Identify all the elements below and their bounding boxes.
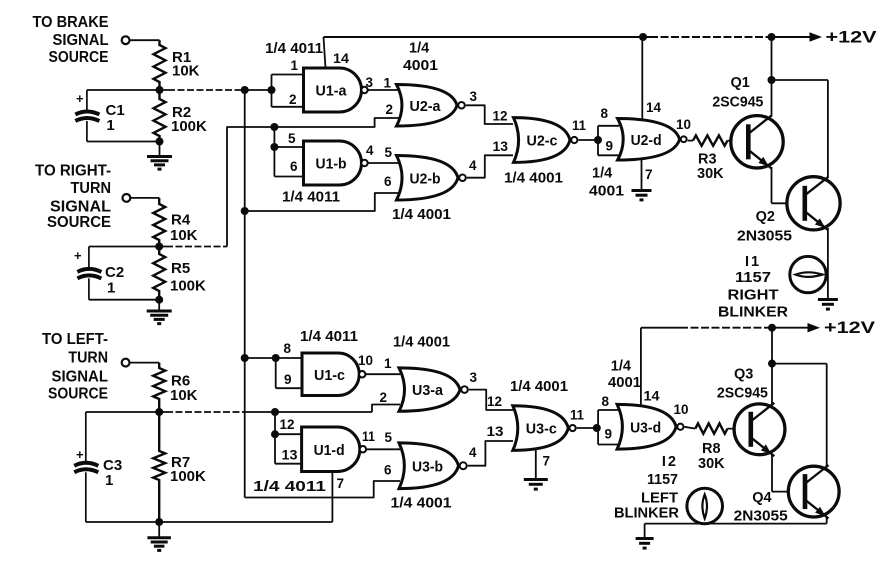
svg-text:1/4 4011: 1/4 4011: [300, 329, 358, 345]
resistor R4 10K: [153, 198, 165, 247]
svg-text:12: 12: [280, 417, 295, 432]
wire brake bus vertical: [244, 90, 246, 498]
junction brake bus / U2-b pin6 wire: [241, 207, 249, 215]
node right-turn junction R4/R5: [155, 243, 163, 251]
svg-text:8: 8: [284, 341, 292, 356]
wire U1-d loop feed: [274, 412, 276, 434]
wire U3-d out to R8: [685, 427, 696, 429]
resistor R8 30K: [695, 423, 727, 433]
nor gate U2-d (1/4 4001): [618, 119, 687, 161]
wire U1-d pin 7 to ground rail: [331, 470, 333, 522]
svg-text:9: 9: [284, 372, 292, 387]
svg-text:BLINKER: BLINKER: [718, 305, 789, 321]
wire to U1-c inputs: [245, 357, 276, 359]
svg-text:1: 1: [107, 280, 115, 297]
nand gate U1-c (1/4 4011): [302, 353, 365, 396]
svg-text:LEFT: LEFT: [641, 491, 678, 507]
svg-text:10K: 10K: [170, 387, 198, 404]
svg-text:2: 2: [289, 92, 297, 107]
svg-text:2: 2: [386, 102, 394, 117]
svg-text:7: 7: [543, 454, 551, 469]
wire right-turn to U2-a pin 2: [227, 118, 399, 247]
svg-text:14: 14: [333, 51, 350, 66]
svg-text:SOURCE: SOURCE: [48, 386, 108, 403]
svg-text:2N3055: 2N3055: [737, 229, 792, 245]
svg-text:R5: R5: [171, 260, 190, 277]
junction brake bus / U1-c feed: [241, 354, 249, 362]
junction Q3 collector node: [768, 360, 776, 368]
svg-text:3: 3: [366, 75, 374, 90]
svg-text:13: 13: [282, 448, 299, 463]
junction U1-c loop: [272, 354, 280, 362]
svg-text:100K: 100K: [171, 118, 207, 135]
svg-text:11: 11: [572, 118, 586, 133]
svg-text:10: 10: [358, 353, 373, 368]
wire U2-a out to U2-c pin 12: [466, 105, 513, 124]
arrow +12V bottom: [808, 323, 821, 332]
wire Q3 emitter to Q4 base: [771, 455, 773, 492]
lamp I1 1157 right blinker: [790, 256, 826, 292]
svg-text:I2: I2: [662, 454, 678, 470]
junction rail / Q1 collector: [768, 33, 776, 41]
wire U3-d loop vertical: [597, 410, 599, 445]
wire U1-a loop vertical: [271, 75, 273, 107]
svg-text:3: 3: [470, 89, 478, 104]
svg-text:U1-a: U1-a: [316, 83, 348, 100]
wire U1-a pin 14 to +12V: [324, 37, 326, 68]
svg-text:TO RIGHT-: TO RIGHT-: [35, 162, 111, 179]
svg-text:9: 9: [606, 139, 614, 154]
svg-text:10K: 10K: [170, 227, 198, 244]
svg-text:SOURCE: SOURCE: [49, 49, 109, 66]
svg-text:14: 14: [644, 388, 661, 403]
svg-text:8: 8: [601, 106, 609, 121]
wire Q3 node to Q4 collector drop: [772, 363, 827, 365]
wire Q1 node to Q2 collector drop: [772, 79, 828, 81]
svg-text:U2-b: U2-b: [410, 170, 441, 187]
svg-text:SIGNAL: SIGNAL: [53, 32, 109, 49]
wire stub to ground I2: [644, 524, 646, 538]
wire U2-c out to U2-d input: [578, 139, 598, 141]
wire +12V rail bottom: [641, 327, 680, 329]
svg-text:U1-b: U1-b: [316, 156, 347, 173]
resistor R7 100K: [153, 412, 165, 522]
svg-text:8: 8: [602, 394, 610, 409]
svg-text:13: 13: [493, 139, 509, 154]
nor gate U3-d (1/4 4001): [617, 404, 683, 449]
svg-text:100K: 100K: [170, 468, 206, 485]
svg-text:U1-d: U1-d: [314, 442, 345, 459]
ground below R7: [147, 538, 171, 551]
svg-text:7: 7: [645, 167, 653, 182]
arrow +12V top: [810, 32, 823, 41]
svg-text:1: 1: [105, 472, 113, 489]
svg-text:+12V: +12V: [826, 28, 878, 47]
nor gate U2-c (1/4 4001): [514, 118, 578, 163]
svg-text:30K: 30K: [697, 166, 724, 182]
svg-text:3: 3: [470, 370, 478, 385]
wire Q3 collector: [771, 364, 773, 405]
svg-text:U3-c: U3-c: [526, 421, 557, 438]
wire +12V rail bottom right: [770, 327, 810, 329]
wire U1-d loop vertical: [274, 434, 276, 464]
svg-text:U3-b: U3-b: [412, 458, 443, 475]
svg-text:TO BRAKE: TO BRAKE: [33, 14, 109, 31]
junction R2/C1 bottom: [156, 138, 164, 146]
wire +12V to Q3 node: [771, 328, 773, 364]
svg-text:U1-c: U1-c: [314, 367, 345, 384]
svg-text:4001: 4001: [589, 184, 624, 200]
wire Q2 emitter to lamp/ground: [827, 228, 829, 299]
wire lamp I2 bottom: [645, 523, 827, 525]
wire right-turn input: [131, 197, 160, 199]
wire right-turn node to bus: [166, 246, 227, 248]
resistor R5 100K: [153, 247, 165, 300]
wire to Q4 base: [772, 491, 800, 493]
wire brake node horizontal: [87, 89, 168, 91]
ground below lamp I1: [818, 300, 838, 310]
wire Q4 emitter down: [826, 517, 828, 524]
transistor Q4 2N3055: [788, 466, 839, 517]
wire C2 bottom: [89, 299, 159, 301]
svg-text:1/4 4011: 1/4 4011: [282, 190, 340, 206]
svg-text:+12V: +12V: [824, 318, 876, 337]
svg-text:1/4 4001: 1/4 4001: [392, 207, 451, 223]
wire left-turn node to U3-a pin2: [244, 411, 372, 413]
wire U3-d pin 8: [598, 409, 618, 411]
wire U1-b loop feed: [273, 127, 275, 147]
wire U1-b pin 5: [274, 146, 305, 148]
nand gate U1-d (1/4 4011): [302, 427, 366, 472]
wire U2-d loop vertical: [597, 126, 599, 156]
wire brake bus to U3-b pin 6: [245, 481, 400, 498]
wire brake bus to U2-b pin 6: [245, 193, 399, 211]
svg-text:30K: 30K: [698, 456, 725, 472]
capacitor C1 1uF: [75, 90, 99, 142]
wire down to Q2 collector: [827, 80, 829, 178]
nor gate U3-c (1/4 4001): [513, 406, 576, 451]
transistor Q2 2N3055: [787, 177, 840, 230]
wire U2-d pin 14 to +12V rail: [641, 37, 643, 126]
resistor R3 30K: [693, 135, 728, 145]
wire R3 to Q1 base: [728, 140, 749, 142]
wire U3-a out to U3-c pin 12: [469, 390, 513, 410]
svg-text:5: 5: [385, 430, 393, 445]
wire Q1 collector: [771, 80, 773, 117]
svg-text:5: 5: [385, 145, 393, 160]
wire U1-a pin 1: [272, 74, 306, 76]
wire U1-c loop vertical: [275, 358, 277, 388]
wire +12V rail top: [324, 36, 651, 38]
node left-turn junction R6/R7: [155, 408, 163, 416]
svg-text:6: 6: [290, 159, 298, 174]
wire U1-b pin 6: [274, 176, 305, 178]
junction U3-d input loop: [593, 424, 601, 432]
svg-text:100K: 100K: [170, 278, 206, 295]
terminal brake signal input: [122, 36, 130, 44]
wire U3-d pin 9: [598, 444, 618, 446]
wire left-turn node dashed: [166, 411, 244, 413]
node brake junction R1/R2: [156, 86, 164, 94]
svg-text:4001: 4001: [608, 375, 641, 391]
wire to ground: [158, 300, 160, 311]
svg-text:U3-d: U3-d: [630, 419, 661, 436]
ground below R2: [147, 157, 172, 170]
lamp I2 1157 left blinker: [687, 488, 723, 524]
wire U2-d out to R3: [688, 140, 693, 142]
svg-text:RIGHT: RIGHT: [728, 288, 779, 304]
svg-text:4: 4: [469, 445, 477, 460]
junction U1-b loop: [270, 143, 278, 151]
svg-text:R4: R4: [171, 211, 191, 228]
svg-text:SOURCE: SOURCE: [47, 214, 111, 231]
svg-text:1157: 1157: [735, 270, 771, 286]
junction rail / Q3 collector: [768, 324, 776, 332]
svg-text:1/4 4011: 1/4 4011: [265, 41, 323, 57]
svg-text:7: 7: [337, 476, 345, 491]
wire jog into U3-a pin 2: [372, 405, 400, 413]
resistor R6 10K: [153, 363, 165, 412]
wire to Q2 base: [772, 202, 801, 204]
wire U2-b out to U2-c pin 13: [467, 155, 513, 177]
svg-text:2: 2: [380, 390, 388, 405]
svg-text:1/4: 1/4: [409, 41, 429, 57]
ground U3-c pin 7: [524, 480, 548, 490]
svg-text:4001: 4001: [403, 58, 438, 74]
wire U1-c pin 9: [276, 387, 303, 389]
wire U1-b loop vertical: [273, 147, 275, 177]
junction U2-d input loop: [594, 136, 602, 144]
svg-text:14: 14: [646, 100, 661, 115]
wire down to Q4 collector: [826, 364, 828, 466]
svg-text:1: 1: [384, 356, 392, 371]
wire R8 to Q3 base: [728, 428, 750, 430]
wire U2-d pin 7 to ground: [641, 155, 643, 190]
ground below lamp I2: [636, 539, 654, 549]
svg-text:2N3055: 2N3055: [734, 508, 788, 524]
svg-text:6: 6: [384, 463, 392, 478]
svg-text:I1: I1: [745, 254, 761, 270]
ground U2-d pin 7: [632, 191, 652, 200]
svg-text:9: 9: [605, 427, 613, 442]
svg-text:10: 10: [676, 117, 691, 132]
junction R7/C3 bottom: [155, 518, 163, 526]
wire brake input: [130, 39, 160, 41]
svg-text:+: +: [74, 248, 82, 263]
svg-text:11: 11: [362, 429, 375, 444]
wire U2-d pin 8: [598, 125, 619, 127]
transistor Q1 2SC945: [731, 116, 783, 168]
wire C2 top: [89, 246, 166, 248]
wire U3-d pin 14 to +12V rail: [640, 328, 642, 412]
wire U1-b out to U2-b pin 5: [368, 162, 399, 164]
svg-text:2SC945: 2SC945: [712, 95, 763, 111]
svg-text:5: 5: [288, 131, 296, 146]
capacitor C2 1uF: [74, 247, 101, 300]
wire brake node to U1-a: [240, 89, 272, 91]
nor gate U2-b (1/4 4001): [397, 156, 466, 201]
wire brake node dashed: [168, 89, 240, 91]
wire stub to ground: [158, 522, 160, 538]
svg-text:U2-a: U2-a: [410, 98, 442, 115]
junction U1-a input loop: [268, 86, 276, 94]
wire U3-c pin 7 to ground: [535, 448, 537, 479]
wire +12V rail top right: [770, 36, 812, 38]
transistor Q3 2SC945: [734, 404, 785, 455]
wire Q1 emitter to Q2 base: [771, 167, 773, 203]
wire U1-a pin 2: [272, 106, 306, 108]
junction brake bus top: [241, 86, 249, 94]
nand gate U1-b (1/4 4011): [304, 141, 368, 185]
junction R5/C2 bottom: [155, 296, 163, 304]
wire U1-d pin 13: [275, 463, 303, 465]
svg-text:6: 6: [384, 174, 392, 189]
svg-text:1: 1: [106, 117, 114, 134]
svg-text:1/4: 1/4: [611, 358, 631, 374]
nor gate U3-b (1/4 4001): [399, 443, 467, 489]
svg-text:1/4 4001: 1/4 4001: [504, 171, 563, 187]
svg-text:12: 12: [493, 109, 508, 124]
svg-text:Q2: Q2: [756, 209, 775, 225]
svg-text:1/4 4001: 1/4 4001: [510, 379, 568, 395]
svg-text:13: 13: [487, 424, 505, 439]
svg-text:10K: 10K: [172, 63, 200, 80]
svg-text:U2-d: U2-d: [631, 132, 662, 149]
wire U1-a out to U2-a pin 1: [368, 89, 399, 91]
svg-text:TURN: TURN: [68, 350, 108, 367]
svg-text:1: 1: [384, 76, 392, 91]
wire U2-d pin 9: [598, 154, 619, 156]
terminal left-turn signal input: [122, 359, 130, 367]
junction U1-d loop: [271, 430, 279, 438]
junction U1-d feed: [271, 408, 279, 416]
svg-text:1/4 4001: 1/4 4001: [393, 334, 450, 350]
junction Q1 collector node: [768, 76, 776, 84]
svg-text:BLINKER: BLINKER: [614, 506, 680, 522]
wire U1-d pin 12: [275, 433, 303, 435]
nor gate U3-a (1/4 4001): [399, 368, 468, 411]
svg-text:12: 12: [487, 394, 502, 409]
resistor R2 100K: [154, 90, 166, 142]
wire U1-c out to U3-a pin 1: [365, 373, 400, 375]
wire U3-b out to U3-c pin 13: [468, 441, 513, 466]
wire U3-c out to U3-d input: [577, 427, 597, 429]
wire U1-c pin 8: [276, 357, 303, 359]
junction rail / U2-d pin14: [639, 33, 647, 41]
svg-text:1: 1: [291, 58, 299, 73]
svg-text:TO LEFT-: TO LEFT-: [42, 331, 108, 348]
wire ground rail bottom-left: [86, 521, 333, 523]
svg-text:1157: 1157: [647, 472, 678, 488]
nand gate U1-a (1/4 4011): [304, 68, 368, 112]
wire U1-d out to U3-b pin 5: [366, 448, 400, 450]
svg-text:Q4: Q4: [752, 490, 771, 506]
resistor R1 10K: [154, 40, 166, 90]
svg-text:11: 11: [570, 408, 584, 423]
svg-text:U2-c: U2-c: [527, 133, 558, 150]
wire to ground: [159, 142, 161, 157]
svg-text:TURN: TURN: [71, 180, 112, 197]
svg-text:1/4 4011: 1/4 4011: [253, 479, 326, 495]
wire +12V to Q1 collector node: [771, 37, 773, 80]
junction U1-b feed: [270, 123, 278, 131]
svg-text:Q3: Q3: [734, 367, 753, 383]
terminal right-turn signal input: [123, 194, 131, 202]
wire +12V rail bottom dashed: [680, 327, 770, 329]
svg-text:U3-a: U3-a: [412, 382, 444, 399]
wire +12V rail top dashed: [650, 36, 770, 38]
nor gate U2-a (1/4 4001): [397, 85, 465, 127]
ground below R5: [147, 311, 172, 324]
svg-text:1/4: 1/4: [592, 166, 612, 182]
svg-text:4: 4: [469, 158, 477, 173]
svg-text:+: +: [76, 91, 84, 106]
svg-text:R8: R8: [702, 441, 721, 457]
svg-text:10: 10: [674, 402, 689, 417]
svg-text:2SC945: 2SC945: [717, 385, 768, 401]
capacitor C3 1uF: [74, 412, 98, 522]
svg-text:+: +: [76, 447, 84, 462]
svg-text:C2: C2: [105, 264, 124, 281]
svg-text:1/4 4001: 1/4 4001: [391, 496, 452, 512]
wire C3 top: [86, 411, 166, 413]
svg-text:4: 4: [366, 143, 374, 158]
svg-text:Q1: Q1: [731, 75, 750, 91]
wire C1 bottom: [87, 141, 160, 143]
wire left-turn input: [130, 362, 159, 364]
svg-text:SIGNAL: SIGNAL: [52, 369, 109, 386]
